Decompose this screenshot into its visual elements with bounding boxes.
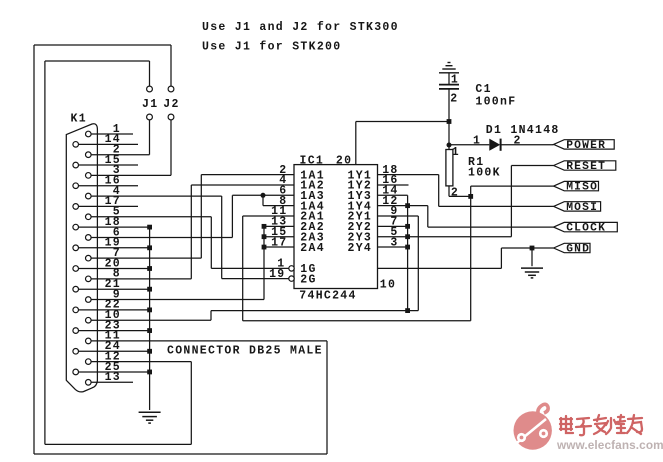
junction: 2Y4 tie [405, 245, 410, 250]
K1 pin 16 number [105, 175, 121, 188]
IC1 pin name 2Y2 [348, 221, 373, 234]
K1 pin 13 lead wire [91, 381, 133, 383]
wire: CLOCK vertical [427, 206, 429, 227]
K1 pin 9 number [113, 288, 121, 301]
wire: 2A1 input horizontal [243, 215, 294, 217]
wire: RESET vertical [510, 166, 512, 237]
junction: output tie to ACK line [405, 308, 410, 313]
K1 pin 9 pad [86, 297, 92, 303]
IC1 part value 74HC244 [299, 290, 356, 303]
wire: 2Y4 output stub [378, 246, 408, 248]
svg-text:1: 1 [451, 74, 459, 87]
K1 pin 8 lead wire [91, 278, 191, 280]
wire: 1A4 input stub [263, 205, 294, 207]
wire: K1 pin6 vertical up to 1A3 row [231, 195, 233, 237]
R1 pin 1 number [452, 146, 460, 159]
svg-text:J2: J2 [163, 98, 179, 111]
IC1 pin number 5 [390, 226, 398, 239]
wire: C1 pin1 lead [448, 73, 450, 85]
K1 pin 14 number [105, 133, 121, 146]
IC1 pin number 3 [390, 236, 398, 249]
K1 pin 19 pad [73, 245, 79, 251]
IC1 pin name 1Y2 [348, 180, 373, 193]
wire: IC1 pin20 horizontal to C1 [356, 121, 449, 123]
K1 pin 13 pad [86, 380, 92, 386]
svg-text:2: 2 [450, 93, 458, 106]
svg-text:IC1: IC1 [300, 154, 325, 167]
K1 pin 12 number [105, 350, 121, 363]
wire: left outer vertical J2 net [33, 45, 35, 454]
wire: ground net vertical [500, 248, 502, 268]
net flag POWER [554, 140, 615, 152]
ground symbol below connector [139, 412, 161, 423]
wire: J1 net left vertical [44, 61, 46, 444]
capacitor C1 plates [439, 85, 459, 89]
wire: J1 top pad up [149, 61, 151, 86]
IC1 pin name 1A4 [300, 200, 325, 213]
svg-text:MISO: MISO [566, 182, 598, 194]
junction: K1 pin 20 to GND bus [147, 266, 152, 271]
IC1 pin number 12 [382, 195, 398, 208]
svg-text:100nF: 100nF [475, 95, 516, 108]
ground symbol above C1 [439, 63, 459, 73]
K1 pin 22 lead wire [79, 309, 150, 311]
svg-text:Use J1 and J2 for STK300: Use J1 and J2 for STK300 [202, 21, 399, 34]
net flag RESET [554, 161, 616, 173]
connector K1 reference label [71, 112, 87, 125]
note: Use J1 for STK200 [202, 40, 341, 53]
wire: K1 pin7 vertical up to 1A1 row [200, 175, 202, 259]
jumper J2 label [163, 98, 179, 111]
K1 pin 18 number [105, 216, 121, 229]
K1 pin 24 number [105, 340, 121, 353]
K1 pin 22 pad [73, 307, 79, 313]
watermark chinese text dianzifashaoyou [560, 415, 642, 435]
IC1 pin 20 number [336, 155, 352, 168]
IC1 pin number 18 [382, 164, 398, 177]
K1 pin 20 number [105, 257, 121, 270]
K1 pin 9 lead wire [91, 299, 264, 301]
K1 pin 15 pad [73, 162, 79, 168]
C1 pin 2 number [450, 93, 458, 106]
wire: CLOCK horizontal to flag [428, 226, 554, 228]
wire: IC1 pin20 vertical [355, 122, 357, 165]
wire: bottom outer horizontal J2 net [34, 453, 327, 455]
op-amp IC1 74HC244 body [294, 165, 378, 289]
IC1 pin number 8 [279, 195, 287, 208]
K1 pin 23 lead wire [79, 330, 150, 332]
K1 pin 21 pad [73, 286, 79, 292]
svg-text:13: 13 [105, 371, 121, 384]
K1 pin 24 pad [73, 348, 79, 354]
K1 pin 2 pad [86, 152, 92, 158]
connector K1 body outline [66, 124, 97, 392]
K1 pin 5 number [113, 206, 121, 219]
wire: 1Y1 output horizontal [378, 174, 439, 176]
junction: 1Y4 tie [405, 203, 410, 208]
IC1 pin name 2A2 [300, 221, 325, 234]
K1 pin 25 number [105, 361, 121, 374]
K1 pin 20 pad [73, 266, 79, 272]
jumper J1 label [142, 98, 158, 111]
junction: K1 pin 18 to GND bus [147, 225, 152, 230]
svg-text:20: 20 [336, 155, 352, 168]
R1 pin 2 number [451, 186, 459, 199]
wire: 2A2 input stub [264, 225, 294, 227]
K1 pin 23 number [105, 319, 121, 332]
K1 pin 3 pad [86, 173, 92, 179]
resistor R1 body [446, 150, 453, 186]
diode D1 1N4148 [489, 139, 500, 151]
junction: K1 pin 22 to GND bus [147, 307, 152, 312]
K1 pin 18 pad [73, 224, 79, 230]
svg-text:CONNECTOR DB25 MALE: CONNECTOR DB25 MALE [167, 345, 323, 358]
svg-text:1: 1 [452, 146, 460, 159]
IC1 pin name 2A3 [300, 231, 325, 244]
jumper J2 bottom pad [168, 114, 174, 120]
IC1 pin name 1Y4 [348, 200, 373, 213]
K1 pin 25 pad [73, 369, 79, 375]
K1 pin 11 number [105, 330, 121, 343]
wire: 2Y1 output horizontal [378, 215, 419, 217]
wire: RESET horizontal to flag [511, 165, 553, 167]
wire: IC1 pin10 ground horizontal [378, 267, 502, 269]
R1 reference label [468, 156, 484, 169]
IC1 2G inverter bubble [289, 276, 294, 281]
IC1 pin number 19 [269, 268, 285, 281]
wire: K1 pin8 vertical up to 1A2 row [190, 185, 192, 279]
watermark url text [556, 438, 663, 452]
net flag GND [554, 243, 591, 255]
svg-text:POWER: POWER [566, 140, 606, 152]
svg-text:74HC244: 74HC244 [299, 290, 356, 303]
wire: R1 pin1 lead [448, 145, 450, 150]
K1 pin 10 lead wire [91, 319, 211, 321]
wire: 1Y3/2Y tie vertical [407, 195, 409, 310]
K1 pin 21 number [105, 278, 121, 291]
wire: J2 bottom pad down to K1 pin 3 row [170, 120, 172, 176]
K1 pin 24 lead wire [79, 350, 150, 352]
IC1 pin name 2Y3 [348, 231, 373, 244]
IC1 pin number 2 [279, 164, 287, 177]
K1 pin 17 pad [73, 204, 79, 210]
svg-text:100K: 100K [468, 166, 501, 179]
svg-text:2A4: 2A4 [300, 242, 325, 255]
IC1 pin name 2A1 [300, 211, 325, 224]
jumper J1 top pad [147, 86, 153, 92]
K1 pin 16 lead wire [79, 185, 138, 187]
K1 pin 19 lead wire [79, 247, 150, 249]
wire: 2A4 input stub [264, 246, 294, 248]
IC1 pin number 11 [271, 205, 287, 218]
wire: 2A3 input stub [264, 236, 294, 238]
wire: J1 bottom pad down to K1 pin 2 row [149, 120, 151, 155]
junction: K1 pin 24 to GND bus [147, 349, 152, 354]
K1 pin 25 lead wire [79, 371, 150, 373]
K1 pin 1 number [113, 123, 121, 136]
wire: GND bus vertical [149, 227, 151, 410]
IC1 pin name 1Y3 [348, 190, 373, 203]
K1 pin 4 pad [86, 193, 92, 199]
K1 pin 6 number [113, 226, 121, 239]
wire: 1Y1 vertical down to MOSI row [438, 175, 440, 207]
K1 pin 3 lead wire [91, 174, 171, 176]
svg-text:2G: 2G [300, 273, 316, 286]
svg-text:C1: C1 [475, 83, 491, 96]
C1 pin 1 number [451, 74, 459, 87]
wire: 1Y2 stub [378, 184, 409, 186]
svg-text:MOSI: MOSI [566, 202, 598, 214]
junction: K1 pin 25 to GND bus [147, 370, 152, 375]
wire: R1 pin2 lead right [449, 195, 471, 197]
IC1 pin name 2A4 [300, 242, 325, 255]
wire: 1G input horizontal [211, 267, 288, 269]
K1 pin 3 number [113, 164, 121, 177]
IC1 pin number 1 [277, 258, 285, 271]
K1 pin 11 lead wire [91, 340, 327, 342]
wire: 1Y3 output stub [378, 194, 408, 196]
K1 pin 13 number [105, 371, 121, 384]
wire: GND horizontal to flag [501, 247, 553, 249]
K1 pin 2 lead wire [91, 154, 149, 156]
IC1 1G inverter bubble [289, 266, 294, 271]
K1 pin 18 lead wire [79, 226, 150, 228]
IC1 pin name 2Y4 [348, 242, 373, 255]
wire: 2Y3 output horizontal [378, 236, 512, 238]
wire: 2Y1 vertical down to ACK line [417, 216, 419, 311]
K1 pin 8 number [113, 268, 121, 281]
IC1 pin name 1A1 [300, 169, 325, 182]
wire: J1 net bottom horizontal [45, 443, 191, 445]
R1 value 100K [468, 166, 501, 179]
wire: ACK horizontal to output ties [211, 310, 418, 312]
K1 pin 15 number [105, 154, 121, 167]
K1 pin 17 number [105, 195, 121, 208]
wire: MOSI horizontal to flag [439, 205, 554, 207]
junction: 2Y2 tie [405, 224, 410, 229]
wire: 2G input horizontal [222, 278, 289, 280]
wire: 1A1 input horizontal [201, 174, 294, 176]
svg-text:19: 19 [269, 268, 285, 281]
wire: J1 net right vertical to pin12 row [190, 362, 192, 445]
IC1 pin number 13 [271, 216, 287, 229]
label CONNECTOR DB25 MALE [167, 345, 323, 358]
wire: top edge J2 net horizontal [34, 44, 171, 46]
K1 pin 10 number [105, 309, 121, 322]
K1 pin 5 pad [86, 214, 92, 220]
K1 pin 16 pad [73, 183, 79, 189]
C1 value 100nF [475, 95, 516, 108]
K1 pin 21 lead wire [79, 288, 150, 290]
K1 pin 12 pad [86, 359, 92, 365]
net flag CLOCK [554, 222, 618, 234]
IC1 pin name 1A2 [300, 180, 325, 193]
K1 pin 17 lead wire [79, 205, 138, 207]
note: Use J1 and J2 for STK300 [202, 21, 399, 34]
IC1 pin name 1G [300, 263, 316, 276]
IC1 pin number 9 [390, 205, 398, 218]
wire: K1 pin10 jog vertical [210, 311, 212, 321]
ground symbol right [521, 268, 543, 278]
K1 pin 11 pad [86, 338, 92, 344]
wire: K1 pin5 vertical down to 1G row [210, 217, 212, 269]
junction: K1 pin 19 to GND bus [147, 245, 152, 250]
wire: K1 pin4 vertical down to 2G row [221, 196, 223, 279]
D1 pin 2 number [514, 135, 522, 148]
wire: J1 net top horizontal [45, 60, 150, 62]
IC1 pin number 7 [390, 216, 398, 229]
K1 pin 14 lead wire [79, 143, 138, 145]
svg-text:2: 2 [514, 135, 522, 148]
wire: 1A3 input horizontal [232, 194, 294, 196]
svg-text:D1 1N4148: D1 1N4148 [486, 124, 560, 137]
K1 pin 4 number [113, 185, 121, 198]
K1 pin 2 number [113, 143, 121, 156]
K1 pin 1 pad [86, 131, 92, 137]
IC1 pin name 2G [300, 273, 316, 286]
wire: R1 pin2 lead down [448, 186, 450, 197]
svg-text:K1: K1 [71, 112, 87, 125]
IC1 pin number 4 [279, 174, 287, 187]
K1 pin 6 lead wire [91, 236, 232, 238]
IC1 pin number 17 [271, 236, 287, 249]
svg-text:10: 10 [380, 279, 396, 292]
junction: pin20/C1 net [447, 119, 452, 124]
IC1 pin name 2Y1 [348, 211, 373, 224]
svg-text:2Y4: 2Y4 [348, 242, 373, 255]
wire: MISO horizontal to flag [471, 185, 554, 187]
wire: 1A3-1A4 tie vertical [262, 195, 264, 205]
junction: R1 pin2 to MISO net [468, 194, 473, 199]
net flag MOSI [554, 202, 601, 214]
K1 pin 4 lead wire [91, 195, 221, 197]
net flag MISO [554, 181, 599, 193]
IC1 pin number 15 [271, 226, 287, 239]
K1 pin 7 lead wire [91, 257, 201, 259]
wire: K1 pin9 vertical up to 2A2/2A3/2A4 [263, 226, 265, 299]
K1 pin 12 lead wire [91, 361, 191, 363]
junction: GND symbol tap [530, 246, 535, 251]
wire: 2Y2 output stub [378, 225, 408, 227]
junction: K1 pin 21 to GND bus [147, 287, 152, 292]
jumper J1 bottom pad [147, 114, 153, 120]
K1 pin 23 pad [73, 328, 79, 334]
wire: D1 anode horizontal [449, 144, 489, 146]
K1 pin 15 lead wire [79, 164, 138, 166]
wire: 2A1 vertical down to MISO return line [242, 216, 244, 321]
IC1 pin number 14 [382, 185, 398, 198]
K1 pin 22 number [105, 299, 121, 312]
wire: 1A2 input horizontal [191, 184, 294, 186]
wire: C1 pin2 down to power net [448, 89, 450, 145]
wire: J2 top pad up [170, 45, 172, 86]
K1 pin 7 number [113, 247, 121, 260]
svg-text:Use J1 for STK200: Use J1 for STK200 [202, 40, 341, 53]
wire: MISO vertical [470, 186, 472, 321]
watermark logo disc [513, 404, 552, 449]
junction: K1 pin 23 to GND bus [147, 328, 152, 333]
K1 pin 20 lead wire [79, 267, 150, 269]
wire: GND symbol lead [531, 248, 533, 266]
C1 reference label [475, 83, 491, 96]
wire: 1Y4 output horizontal [378, 205, 428, 207]
wire: right vertical of pin11 loop [326, 341, 328, 454]
IC1 reference label [300, 154, 325, 167]
svg-text:GND: GND [566, 244, 590, 256]
junction: 2Y3 tie [405, 234, 410, 239]
IC1 pin number 6 [279, 185, 287, 198]
jumper J2 top pad [168, 86, 174, 92]
svg-text:CLOCK: CLOCK [566, 223, 606, 235]
svg-text:2: 2 [451, 186, 459, 199]
K1 pin 7 pad [86, 255, 92, 261]
K1 pin 1 lead wire [91, 133, 133, 135]
D1 pin 1 number [473, 135, 481, 148]
svg-text:17: 17 [271, 236, 287, 249]
junction dot power net [447, 143, 452, 148]
K1 pin 14 pad [73, 142, 79, 148]
junction dot 1A3/1A4 tie [261, 193, 266, 198]
svg-text:www.elecfans.com: www.elecfans.com [556, 438, 663, 452]
IC1 pin number 16 [382, 174, 398, 187]
svg-text:1: 1 [473, 135, 481, 148]
wire: D1 cathode to POWER flag [502, 144, 554, 146]
IC1 pin name 1Y1 [348, 169, 373, 182]
K1 pin 10 pad [86, 317, 92, 323]
K1 pin 8 pad [86, 276, 92, 282]
K1 pin 6 pad [86, 235, 92, 241]
IC1 pin name 1A3 [300, 190, 325, 203]
junction: 2A2 tie [262, 224, 267, 229]
D1 label and value [486, 124, 560, 137]
K1 pin 5 lead wire [91, 216, 211, 218]
IC1 pin 10 number [380, 279, 396, 292]
junction: 2A3 tie [262, 234, 267, 239]
junction: 2A4 tie [262, 245, 267, 250]
svg-text:J1: J1 [142, 98, 158, 111]
K1 pin 19 number [105, 237, 121, 250]
svg-text:RESET: RESET [566, 161, 606, 173]
wire: MISO net lower horizontal [243, 320, 471, 322]
